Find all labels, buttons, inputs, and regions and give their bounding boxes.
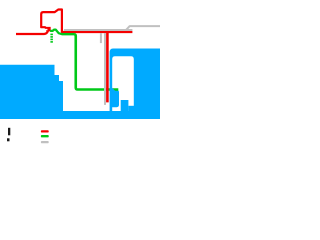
green line: dotted under-construction stub (4 dashes) — [50, 34, 53, 43]
red junction blob fill — [46, 27, 51, 32]
water: shore strip covering green line at harbour edge — [110, 88, 116, 92]
water: middle blue column in notch — [121, 100, 129, 112]
legend: red line sample — [41, 130, 49, 132]
gray line: diagonal rise and upper segment to east edge — [126, 26, 160, 30]
legend: gray line sample — [41, 141, 49, 143]
gray line: short stub below junction — [100, 33, 102, 43]
red line: west segment curving up to junction — [16, 30, 48, 34]
water: right harbour block — [110, 49, 160, 120]
green line: south leg and bottom east run — [74, 34, 118, 89]
legend: black exclamation glyph — [8, 128, 10, 136]
white hole inside junction blob — [45, 29, 47, 30]
gray line: lower east segment alongside red — [64, 29, 132, 31]
gray line: south branch — [104, 33, 106, 105]
green line: upper run from junction with zigzag — [50, 30, 74, 35]
water: inner blue bulge left of notch — [112, 90, 119, 107]
red line: south branch — [106, 32, 109, 102]
red line: loop and east arm — [41, 10, 132, 33]
water: left bay with staircase shore and bottom channel band — [0, 65, 160, 119]
legend: green line sample — [41, 135, 49, 137]
water: small blue step right of middle column — [129, 106, 135, 112]
